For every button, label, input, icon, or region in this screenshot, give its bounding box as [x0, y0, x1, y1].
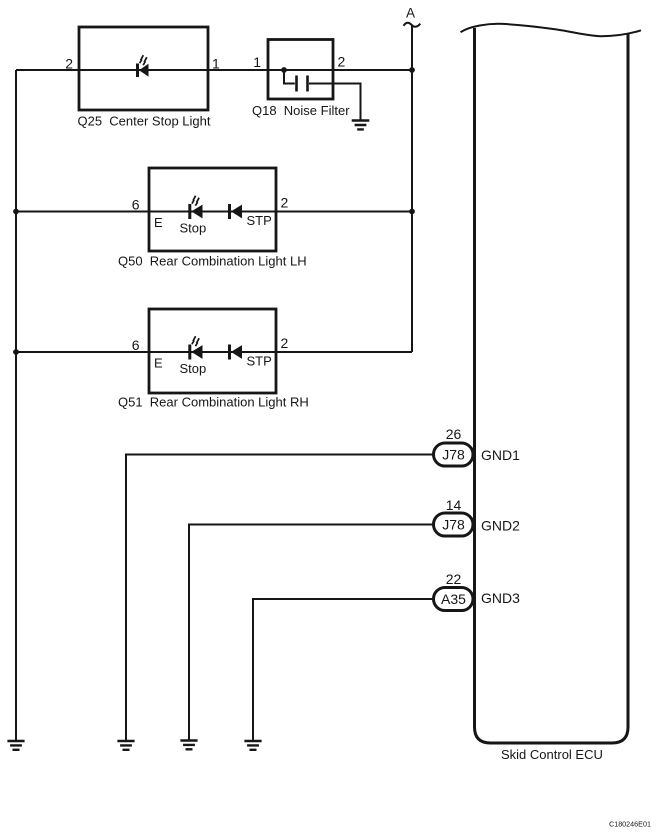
- svg-text:GND3: GND3: [481, 590, 520, 606]
- svg-text:Q18 Noise Filter: Q18 Noise Filter: [252, 103, 350, 118]
- svg-text:1: 1: [212, 56, 220, 72]
- svg-text:Q51 Rear Combination Light RH: Q51 Rear Combination Light RH: [118, 395, 309, 410]
- svg-text:Q25 Center Stop Light: Q25 Center Stop Light: [78, 114, 211, 129]
- svg-text:GND2: GND2: [481, 518, 520, 534]
- svg-text:A: A: [406, 6, 415, 21]
- svg-text:STP: STP: [247, 354, 272, 369]
- svg-text:Skid Control ECU: Skid Control ECU: [501, 747, 603, 762]
- svg-text:26: 26: [446, 426, 462, 442]
- svg-text:C180246E01: C180246E01: [609, 820, 651, 829]
- svg-text:1: 1: [253, 54, 261, 70]
- svg-text:2: 2: [281, 195, 289, 211]
- svg-text:2: 2: [65, 56, 73, 72]
- svg-text:Stop: Stop: [180, 361, 207, 376]
- svg-text:STP: STP: [247, 213, 272, 228]
- svg-text:GND1: GND1: [481, 447, 520, 463]
- svg-text:Q50 Rear Combination Light LH: Q50 Rear Combination Light LH: [118, 254, 307, 269]
- svg-text:22: 22: [446, 571, 462, 587]
- svg-text:6: 6: [132, 337, 140, 353]
- svg-text:2: 2: [281, 335, 289, 351]
- svg-text:Stop: Stop: [180, 221, 207, 236]
- svg-text:J78: J78: [442, 517, 465, 533]
- svg-text:E: E: [154, 356, 163, 371]
- svg-text:14: 14: [446, 497, 462, 513]
- svg-text:A35: A35: [441, 591, 466, 607]
- svg-text:J78: J78: [442, 447, 465, 463]
- svg-text:2: 2: [338, 54, 346, 70]
- svg-text:6: 6: [132, 197, 140, 213]
- svg-text:E: E: [154, 215, 163, 230]
